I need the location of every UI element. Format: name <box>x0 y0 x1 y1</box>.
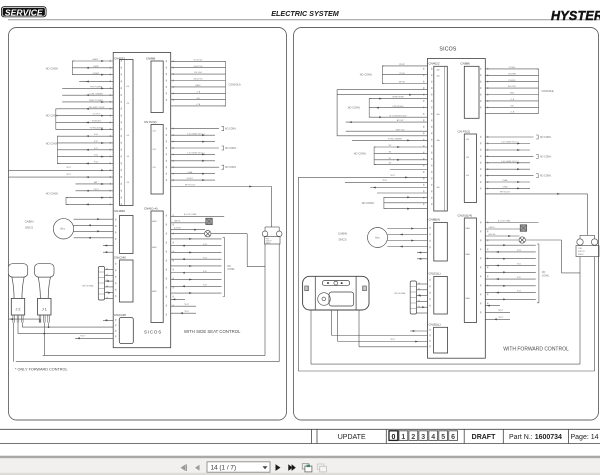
svg-text:* ONLY FORWARD CONTROL: * ONLY FORWARD CONTROL <box>15 368 68 372</box>
svg-text:APOE: APOE <box>399 81 405 84</box>
svg-text:BA05: BA05 <box>466 297 470 300</box>
svg-text:DRAFT: DRAFT <box>472 434 496 441</box>
svg-text:CN4(C+4): CN4(C+4) <box>144 206 158 210</box>
svg-text:LAPOL: LAPOL <box>174 220 182 223</box>
svg-text:UPDATE: UPDATE <box>338 434 366 441</box>
svg-text:BA05: BA05 <box>195 84 201 87</box>
svg-text:5: 5 <box>441 434 445 441</box>
svg-text:*NOT: *NOT <box>390 175 396 177</box>
svg-text:CHAL: CHAL <box>187 171 193 174</box>
svg-text:CONN.: CONN. <box>542 275 550 277</box>
svg-text:POWD: POWD <box>509 67 516 69</box>
svg-text:WITH FORWARD CONTROL: WITH FORWARD CONTROL <box>503 347 569 353</box>
svg-text:CN4022: CN4022 <box>429 62 440 66</box>
svg-text:2: 2 <box>411 434 415 441</box>
svg-text:A COSY WAL: A COSY WAL <box>498 219 512 222</box>
svg-text:+A0: +A0 <box>436 139 439 142</box>
svg-text:*NOT: *NOT <box>80 336 86 338</box>
svg-text:CABIN: CABIN <box>338 232 347 236</box>
svg-text:R4 21/04: R4 21/04 <box>194 59 203 61</box>
svg-text:CN886: CN886 <box>146 56 156 60</box>
svg-text:* LD POL: * LD POL <box>92 114 102 116</box>
svg-text:GUIDT: GUIDT <box>187 178 194 180</box>
svg-text:CN(C)(L): CN(C)(L) <box>429 272 441 276</box>
svg-text:CN(D)(L): CN(D)(L) <box>429 323 441 327</box>
svg-text:+T A: +T A <box>196 90 201 93</box>
svg-text:SICOS: SICOS <box>439 46 456 52</box>
svg-text:R4 1/04: R4 1/04 <box>194 72 202 74</box>
svg-text:SNCS: SNCS <box>25 225 33 229</box>
svg-text:WO/WB: WO/WB <box>508 73 516 75</box>
svg-text:+24: +24 <box>126 156 129 158</box>
svg-text:NO CONN.: NO CONN. <box>540 176 552 178</box>
svg-text:SW055: SW055 <box>578 254 584 256</box>
svg-text:BA05: BA05 <box>466 253 470 256</box>
svg-text:NO CONN.: NO CONN. <box>354 153 367 156</box>
svg-text:BA05: BA05 <box>152 290 156 293</box>
svg-text:+N3: +N3 <box>466 175 469 177</box>
svg-text:BA05: BA05 <box>152 246 156 249</box>
svg-text:+A0: +A0 <box>436 69 439 72</box>
svg-text:NO CONN.: NO CONN. <box>225 167 237 169</box>
svg-text:+N3: +N3 <box>152 167 155 169</box>
svg-text:CN P2(2): CN P2(2) <box>458 129 471 133</box>
svg-text:NO CONN.: NO CONN. <box>46 68 59 71</box>
svg-text:CONSOLA: CONSOLA <box>229 84 242 87</box>
svg-text:+T A: +T A <box>510 110 515 113</box>
svg-text:NO CONN.: NO CONN. <box>360 74 373 77</box>
svg-text:+24: +24 <box>126 182 129 184</box>
svg-text:GB-LT/04: GB-LT/04 <box>194 79 204 81</box>
svg-text:CN4022: CN4022 <box>114 56 125 60</box>
svg-text:CONN.: CONN. <box>228 269 236 271</box>
svg-text:+A0: +A0 <box>436 186 439 189</box>
svg-text:*NOT: *NOT <box>66 167 72 169</box>
svg-text:MAUT*: MAUT* <box>93 58 100 61</box>
svg-text:NO: NO <box>542 272 546 274</box>
svg-text:0: 0 <box>391 434 395 441</box>
svg-text:NO CONN.: NO CONN. <box>348 106 361 109</box>
svg-text:1: 1 <box>401 434 405 441</box>
svg-text:SICOS: SICOS <box>144 330 162 335</box>
svg-text:+N3: +N3 <box>152 149 155 151</box>
svg-text:*NOT: *NOT <box>93 189 99 191</box>
svg-text:CHW: CHW <box>503 187 508 189</box>
svg-text:TPS POWER: TPS POWER <box>90 86 103 88</box>
svg-text:+N3: +N3 <box>466 157 469 159</box>
svg-text:PPE MODE: PPE MODE <box>393 106 405 108</box>
svg-text:HP IN CUT: HP IN CUT <box>185 185 196 187</box>
svg-text:4: 4 <box>431 434 435 441</box>
svg-text:SWG SIG: SWG SIG <box>395 129 405 131</box>
svg-text:J 2: J 2 <box>15 307 20 311</box>
svg-text:3: 3 <box>421 434 425 441</box>
svg-text:BA05: BA05 <box>466 227 470 230</box>
svg-text:+N3: +N3 <box>466 139 469 141</box>
svg-text:GREB*: GREB* <box>93 73 100 75</box>
svg-text:Page: 14: Page: 14 <box>570 434 598 441</box>
svg-text:WIRE WIRE: WIRE WIRE <box>392 97 404 99</box>
svg-text:*NOT: *NOT <box>498 310 504 312</box>
svg-text:+A0: +A0 <box>436 113 439 116</box>
svg-text:ATC/W: ATC/W <box>397 119 404 122</box>
svg-text:A COSY WAL: A COSY WAL <box>184 213 198 216</box>
svg-text:CN1840: CN1840 <box>114 209 125 213</box>
svg-text:WE SIGNAL: WE SIGNAL <box>394 292 406 295</box>
svg-text:PG/WD: PG/WD <box>508 80 516 82</box>
svg-text:SAT*: SAT* <box>94 181 99 184</box>
svg-text:PRUP: PRUP <box>399 64 405 66</box>
svg-text:SW055: SW055 <box>266 242 271 244</box>
svg-text:CN886: CN886 <box>461 62 471 66</box>
svg-text:ACC/VD: ACC/VD <box>508 85 516 88</box>
svg-text:SWITCH: SWITCH <box>578 251 585 253</box>
svg-text:+T A: +T A <box>510 98 515 101</box>
svg-text:GND: GND <box>510 93 515 95</box>
svg-text:+24: +24 <box>126 103 129 105</box>
svg-text:+N3: +N3 <box>152 131 155 133</box>
svg-text:+24: +24 <box>126 86 129 88</box>
svg-text:ILUM. GREEN: ILUM. GREEN <box>89 93 103 95</box>
svg-text:CPOD: CPOD <box>399 73 406 75</box>
svg-text:AJ4 WL: AJ4 WL <box>174 227 182 230</box>
svg-text:NO CONN.: NO CONN. <box>225 129 237 131</box>
svg-text:1-40 LEAD CELL 2: 1-40 LEAD CELL 2 <box>501 160 519 163</box>
svg-text:HP IN CUT: HP IN CUT <box>500 192 511 194</box>
svg-text:ELECTRIC SYSTEM: ELECTRIC SYSTEM <box>271 9 340 18</box>
svg-text:1-40 LEAD CELL 1: 1-40 LEAD CELL 1 <box>501 141 519 144</box>
svg-text:IN CONSOLE ACK: IN CONSOLE ACK <box>389 114 407 117</box>
svg-text:*NOT: *NOT <box>184 311 190 313</box>
svg-text:*NOT: *NOT <box>382 180 388 182</box>
svg-text:* RH SHIFT SIGN: * RH SHIFT SIGN <box>88 107 105 109</box>
svg-text:NO CONN.: NO CONN. <box>225 148 237 150</box>
svg-text:SERVICE: SERVICE <box>5 7 43 17</box>
svg-text:WE SIGNAL: WE SIGNAL <box>82 285 94 288</box>
svg-text:CABIN: CABIN <box>25 219 34 223</box>
svg-text:NO CONN.: NO CONN. <box>46 115 59 118</box>
svg-text:CN(D)48: CN(D)48 <box>114 313 126 317</box>
svg-text:NO CONN.: NO CONN. <box>46 143 59 146</box>
svg-text:NO CONN.: NO CONN. <box>362 202 375 205</box>
svg-text:J 1: J 1 <box>42 307 47 311</box>
svg-text:GEIB*: GEIB* <box>93 66 99 68</box>
svg-text:NO CONN.: NO CONN. <box>540 156 552 158</box>
svg-text:+T A: +T A <box>196 103 201 106</box>
svg-text:6: 6 <box>451 434 455 441</box>
svg-text:CONSOLE: CONSOLE <box>542 90 555 93</box>
svg-text:*NOT: *NOT <box>390 339 396 341</box>
svg-text:14 (1 / 7): 14 (1 / 7) <box>211 465 237 472</box>
svg-text:CN(X)(1/4): CN(X)(1/4) <box>458 213 473 217</box>
svg-text:LAPOL: LAPOL <box>489 226 497 229</box>
svg-text:SNCS: SNCS <box>338 238 346 242</box>
svg-text:+24: +24 <box>126 135 129 137</box>
svg-text:*NOT: *NOT <box>66 174 72 176</box>
svg-text:SWITCH: SWITCH <box>266 240 272 242</box>
svg-text:* SIGN ATC: * SIGN ATC <box>91 120 102 123</box>
svg-text:AJ4 WL: AJ4 WL <box>489 233 497 236</box>
svg-text:NO: NO <box>228 266 232 268</box>
svg-text:HYSTER: HYSTER <box>551 9 600 23</box>
svg-text:GB-LT/04: GB-LT/04 <box>194 66 204 68</box>
svg-text:FOWL SWREE: FOWL SWREE <box>388 139 403 141</box>
svg-text:CN(C)40: CN(C)40 <box>114 255 126 259</box>
svg-text:*NOT: *NOT <box>498 317 504 319</box>
svg-text:*NOT: *NOT <box>184 304 190 306</box>
svg-text:CN P2(2): CN P2(2) <box>144 120 157 124</box>
svg-text:CN88(A): CN88(A) <box>429 218 441 222</box>
svg-text:NO CONN.: NO CONN. <box>46 193 59 196</box>
svg-text:NO CONN.: NO CONN. <box>540 137 552 139</box>
svg-text:Part N.: 1600734: Part N.: 1600734 <box>509 434 562 441</box>
svg-text:CHAL: CHAL <box>502 179 508 182</box>
svg-text:BA05: BA05 <box>152 220 156 223</box>
svg-text:WITH SIDE SEAT CONTROL: WITH SIDE SEAT CONTROL <box>184 329 241 334</box>
svg-text:+A0: +A0 <box>436 75 439 78</box>
